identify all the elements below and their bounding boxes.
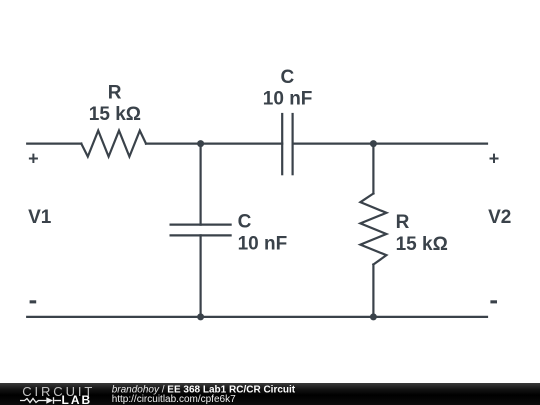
svg-text:10 nF: 10 nF: [238, 233, 288, 254]
svg-text:V1: V1: [28, 207, 52, 228]
svg-text:C: C: [281, 67, 295, 88]
svg-text:LAB: LAB: [62, 393, 93, 405]
svg-text:+: +: [28, 149, 39, 169]
svg-text:10 nF: 10 nF: [263, 88, 313, 109]
svg-text:15 kΩ: 15 kΩ: [396, 234, 448, 255]
svg-text:R: R: [108, 83, 122, 104]
svg-text:R: R: [396, 212, 410, 233]
svg-text:V2: V2: [488, 207, 511, 228]
svg-text:15 kΩ: 15 kΩ: [89, 104, 141, 125]
svg-text:http://circuitlab.com/cpfe6k7: http://circuitlab.com/cpfe6k7: [112, 394, 236, 405]
svg-text:C: C: [238, 212, 252, 233]
svg-text:+: +: [489, 149, 500, 169]
